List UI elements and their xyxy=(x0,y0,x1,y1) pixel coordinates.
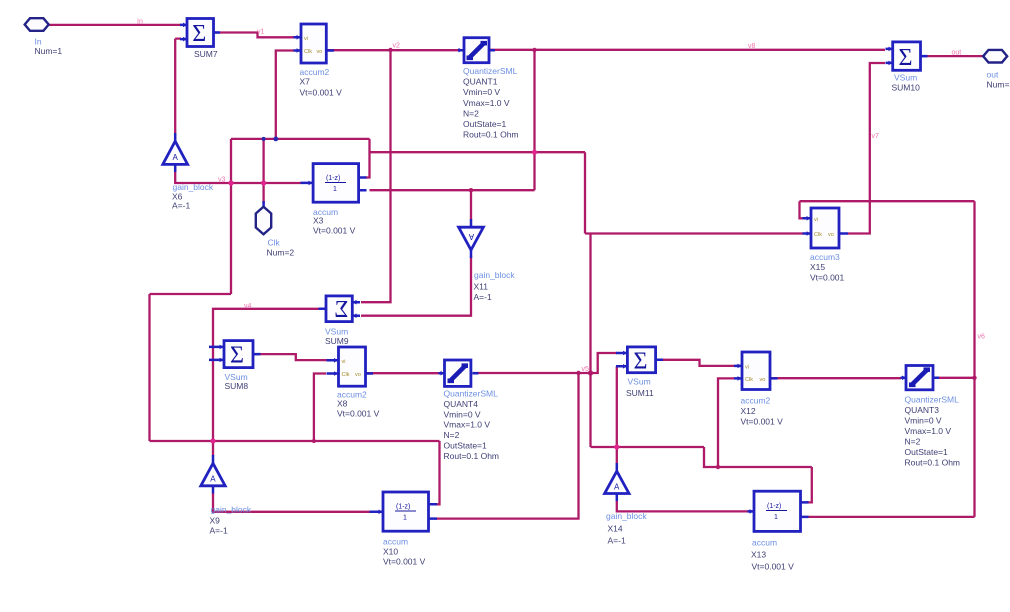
svg-text:out: out xyxy=(952,50,962,57)
node junction x974.5 y377.8 xyxy=(972,376,976,380)
op-amp SUM9 mirrored xyxy=(319,296,361,346)
svg-text:accum: accum xyxy=(383,537,408,547)
svg-text:A=-1: A=-1 xyxy=(210,526,228,536)
svg-text:X14: X14 xyxy=(608,524,623,534)
svg-text:In: In xyxy=(35,37,42,47)
wire node v2 drop to SUM9 in1 xyxy=(361,50,391,302)
svg-text:Vt=0.001 V: Vt=0.001 V xyxy=(752,562,795,572)
node junction x590.5 y373 xyxy=(588,370,593,375)
svg-text:vi: vi xyxy=(304,36,308,42)
wire SUM11 out jog to X12 vi xyxy=(656,360,735,366)
svg-text:Num=1: Num=1 xyxy=(35,46,63,56)
wire x439.5 to X10 topright xyxy=(437,441,440,504)
svg-text:Clk: Clk xyxy=(304,49,312,55)
svg-text:accum2: accum2 xyxy=(300,67,330,77)
svg-text:A=-1: A=-1 xyxy=(172,201,190,211)
svg-text:Num=3: Num=3 xyxy=(987,80,1010,90)
svg-text:OutState=1: OutState=1 xyxy=(905,447,949,457)
wire X8 vo to QUANT4 xyxy=(366,372,441,374)
svg-text:In: In xyxy=(137,19,143,26)
wire QUANT4 out jog to SUM11 in1 xyxy=(473,353,618,373)
svg-text:Vt=0.001 V: Vt=0.001 V xyxy=(313,226,356,236)
svg-text:X13: X13 xyxy=(751,550,766,560)
svg-text:Vmax=1.0 V: Vmax=1.0 V xyxy=(444,420,491,430)
svg-text:gain_block: gain_block xyxy=(474,270,515,280)
wire X9 to X10 vi xyxy=(213,493,370,512)
accumulator X15 accum3 xyxy=(803,208,849,283)
amplifier X14 gain_block xyxy=(605,463,648,546)
svg-text:X10: X10 xyxy=(383,547,398,557)
wire SUM9 out down to X9 xyxy=(213,309,326,456)
svg-text:SUM11: SUM11 xyxy=(626,388,654,398)
port Clk Num=2 xyxy=(256,201,295,258)
svg-text:1: 1 xyxy=(333,186,337,193)
svg-text:X3: X3 xyxy=(313,216,324,226)
svg-text:Vmin=0 V: Vmin=0 V xyxy=(905,415,942,425)
node junction x231 y183 xyxy=(228,180,233,185)
wire X3 out row y190 xyxy=(370,189,535,191)
node junction x275.8 y138.9 xyxy=(273,137,278,142)
svg-text:v6: v6 xyxy=(978,334,986,341)
node junction x263.6 y138.9 xyxy=(262,137,266,141)
svg-text:gain_block: gain_block xyxy=(606,511,647,521)
svg-text:X12: X12 xyxy=(741,406,756,416)
node junction x534.5 y152 xyxy=(532,150,537,155)
wire X10 vo up to QUANT4 net xyxy=(436,373,579,519)
node junction x471 y190 xyxy=(469,188,473,192)
svg-text:SUM7: SUM7 xyxy=(194,49,218,59)
svg-text:A: A xyxy=(614,483,620,492)
node junction x578.5 y373 xyxy=(576,371,580,375)
svg-text:vi: vi xyxy=(342,359,346,365)
svg-text:N=2: N=2 xyxy=(463,108,479,118)
quantizer QUANT4 xyxy=(439,360,500,461)
svg-text:VSum: VSum xyxy=(628,377,651,387)
accumulator X7 xyxy=(294,24,343,98)
port out Num=3 xyxy=(983,50,1010,90)
svg-text:OutState=1: OutState=1 xyxy=(463,119,507,129)
wire X7 clk vertical xyxy=(276,51,294,139)
svg-text:Clk: Clk xyxy=(814,232,822,238)
svg-text:vi: vi xyxy=(814,217,818,223)
node junction x390.5 y50 xyxy=(388,48,392,52)
svg-text:A: A xyxy=(173,153,179,162)
op-amp SUM8 xyxy=(209,341,261,391)
wire X14 to X13 vi xyxy=(617,501,748,511)
svg-text:X7: X7 xyxy=(300,77,311,87)
node junction x616.8 y447 xyxy=(614,444,619,449)
wire X7 vo to QUANT1 xyxy=(327,49,461,51)
svg-text:Vt=0.001 V: Vt=0.001 V xyxy=(300,88,343,98)
svg-text:Σ: Σ xyxy=(230,343,244,369)
svg-text:Vt=0.001 V: Vt=0.001 V xyxy=(337,409,380,419)
svg-text:QUANT4: QUANT4 xyxy=(444,399,479,409)
svg-text:accum: accum xyxy=(752,538,777,548)
amplifier X6 gain_block xyxy=(163,133,214,211)
accumulator X13 xyxy=(748,491,809,571)
svg-text:1: 1 xyxy=(774,514,778,521)
wire X12 clk drop xyxy=(718,378,734,467)
wire x585 drop xyxy=(584,152,586,233)
svg-text:Σ: Σ xyxy=(334,297,348,323)
svg-text:A=-1: A=-1 xyxy=(608,536,626,546)
wire X12 vo to QUANT3 xyxy=(770,377,901,379)
wire X6 out to X3 vi xyxy=(175,171,301,183)
port In Num=1 xyxy=(25,18,63,56)
svg-text:Vt=0.001: Vt=0.001 xyxy=(810,273,845,283)
svg-text:Clk: Clk xyxy=(745,377,753,383)
accumulator X12 xyxy=(734,352,783,427)
svg-text:X9: X9 xyxy=(210,516,221,526)
wire QUANT1 feedback drop x534.5 xyxy=(533,50,535,190)
svg-text:QUANT1: QUANT1 xyxy=(463,77,498,87)
svg-text:QuantizerSML: QuantizerSML xyxy=(463,66,518,76)
wire QUANT1 out to SUM10 xyxy=(489,49,885,51)
svg-text:vo: vo xyxy=(317,49,323,55)
wire x231 down xyxy=(230,139,232,294)
svg-text:SUM9: SUM9 xyxy=(325,336,349,346)
wire y152 row xyxy=(370,151,586,153)
wire y441 row xyxy=(150,440,440,442)
svg-text:A: A xyxy=(468,232,474,241)
svg-text:v1: v1 xyxy=(257,29,265,36)
wire X15 vi jog xyxy=(800,201,804,218)
svg-text:SUM8: SUM8 xyxy=(225,381,249,391)
pin arrows xyxy=(459,48,463,53)
svg-text:(1-z): (1-z) xyxy=(767,503,781,510)
wire X11 bottom to SUM9 in2 xyxy=(361,256,471,316)
wire X3 topright link xyxy=(365,139,370,178)
op-amp SUM10 xyxy=(886,42,928,93)
wire Clk port vertical xyxy=(262,139,264,204)
svg-text:vo: vo xyxy=(828,232,834,238)
wire x704 jog y467 row xyxy=(704,447,812,467)
svg-text:VSum: VSum xyxy=(325,327,348,337)
svg-text:vo: vo xyxy=(355,372,361,378)
svg-text:A: A xyxy=(210,475,216,484)
wire SUM11 in2 vertical to X14 xyxy=(616,366,618,464)
quantizer QUANT1 xyxy=(458,38,519,140)
op-amp SUM7 xyxy=(180,19,220,60)
svg-text:Rout=0.1 Ohm: Rout=0.1 Ohm xyxy=(444,451,500,461)
wire y233 row to X15 clk xyxy=(585,232,803,234)
wire y447 row xyxy=(591,446,705,448)
svg-text:A=-1: A=-1 xyxy=(474,292,492,302)
svg-text:Vmin=0 V: Vmin=0 V xyxy=(444,409,481,419)
amplifier X11 gain_block xyxy=(459,219,516,302)
svg-text:Vt=0.001 V: Vt=0.001 V xyxy=(383,557,426,567)
node junction x313.9 y441 xyxy=(312,439,316,443)
accumulator X3 xyxy=(301,164,367,236)
node junction x718 y467 xyxy=(716,465,720,469)
svg-text:QuantizerSML: QuantizerSML xyxy=(905,394,960,404)
svg-text:accum3: accum3 xyxy=(810,252,840,262)
svg-text:X15: X15 xyxy=(810,262,825,272)
wire In to SUM7 xyxy=(49,24,181,26)
svg-text:gain_block: gain_block xyxy=(173,182,214,192)
node junction x213 y441 xyxy=(210,438,215,443)
accumulator X10 xyxy=(370,492,438,567)
svg-text:v5: v5 xyxy=(582,366,590,373)
wire y201 row xyxy=(800,200,975,202)
svg-text:v3: v3 xyxy=(218,177,226,184)
svg-text:QUANT3: QUANT3 xyxy=(905,405,940,415)
wire x974.5 right feedback xyxy=(973,201,975,517)
svg-text:Num=2: Num=2 xyxy=(267,248,295,258)
svg-text:OutState=1: OutState=1 xyxy=(444,441,488,451)
op-amp SUM11 xyxy=(616,347,663,398)
svg-text:Σ: Σ xyxy=(634,348,648,374)
svg-text:vi: vi xyxy=(745,365,749,371)
wire x590.5 drop xyxy=(589,234,591,448)
wire SUM8 out jog to X8 vi xyxy=(253,354,327,360)
wire SUM7 in2 vertical to X6 xyxy=(175,39,181,133)
wire y294 row xyxy=(150,293,232,295)
svg-text:Σ: Σ xyxy=(192,21,206,47)
svg-text:Vt=0.001 V: Vt=0.001 V xyxy=(741,417,784,427)
svg-text:N=2: N=2 xyxy=(905,436,921,446)
wire SUM7 out jog to X7 vi xyxy=(214,33,296,38)
svg-text:N=2: N=2 xyxy=(444,430,460,440)
svg-text:X8: X8 xyxy=(337,399,348,409)
svg-text:v8: v8 xyxy=(748,43,756,50)
svg-text:accum2: accum2 xyxy=(741,396,771,406)
wire X11 top pin xyxy=(470,190,472,220)
svg-text:X11: X11 xyxy=(474,282,489,292)
wire x811.8 to X13 topright xyxy=(806,467,812,502)
wire X8 clk drop xyxy=(314,374,326,442)
node junction x263.6 y183 xyxy=(261,180,266,185)
svg-text:(1-z): (1-z) xyxy=(396,504,410,511)
svg-text:Vmin=0 V: Vmin=0 V xyxy=(463,87,500,97)
wire X15 vo to SUM10 in2 node v7 xyxy=(848,63,885,234)
svg-text:Clk: Clk xyxy=(268,238,281,248)
svg-text:out: out xyxy=(987,70,999,80)
svg-text:(1-z): (1-z) xyxy=(326,175,340,182)
svg-text:Vmax=1.0 V: Vmax=1.0 V xyxy=(905,426,952,436)
svg-text:gain_block: gain_block xyxy=(211,505,252,515)
svg-text:SUM10: SUM10 xyxy=(892,83,921,93)
amplifier X9 gain_block xyxy=(201,455,252,536)
svg-text:v4: v4 xyxy=(244,303,252,310)
wire QUANT3 out xyxy=(933,377,975,379)
wire y138.9 row xyxy=(231,138,370,140)
node junction x534.5 y50 xyxy=(532,48,536,52)
svg-text:v2: v2 xyxy=(393,43,401,50)
wire x149.5 down xyxy=(148,294,150,441)
quantizer QUANT3 xyxy=(901,366,961,468)
svg-text:Vmax=1.0 V: Vmax=1.0 V xyxy=(463,98,510,108)
svg-text:Rout=0.1 Ohm: Rout=0.1 Ohm xyxy=(905,457,961,467)
svg-text:Rout=0.1 Ohm: Rout=0.1 Ohm xyxy=(463,130,519,140)
wire X13 vo row xyxy=(808,516,975,518)
wire SUM10 out to port xyxy=(921,55,984,57)
accumulator X8 xyxy=(327,347,380,419)
svg-text:QuantizerSML: QuantizerSML xyxy=(444,389,499,399)
svg-text:vo: vo xyxy=(760,377,766,383)
svg-text:VSum: VSum xyxy=(894,73,917,83)
svg-text:Σ: Σ xyxy=(899,45,913,71)
svg-text:1: 1 xyxy=(403,515,407,522)
svg-text:v7: v7 xyxy=(872,133,880,140)
svg-text:Clk: Clk xyxy=(342,372,350,378)
